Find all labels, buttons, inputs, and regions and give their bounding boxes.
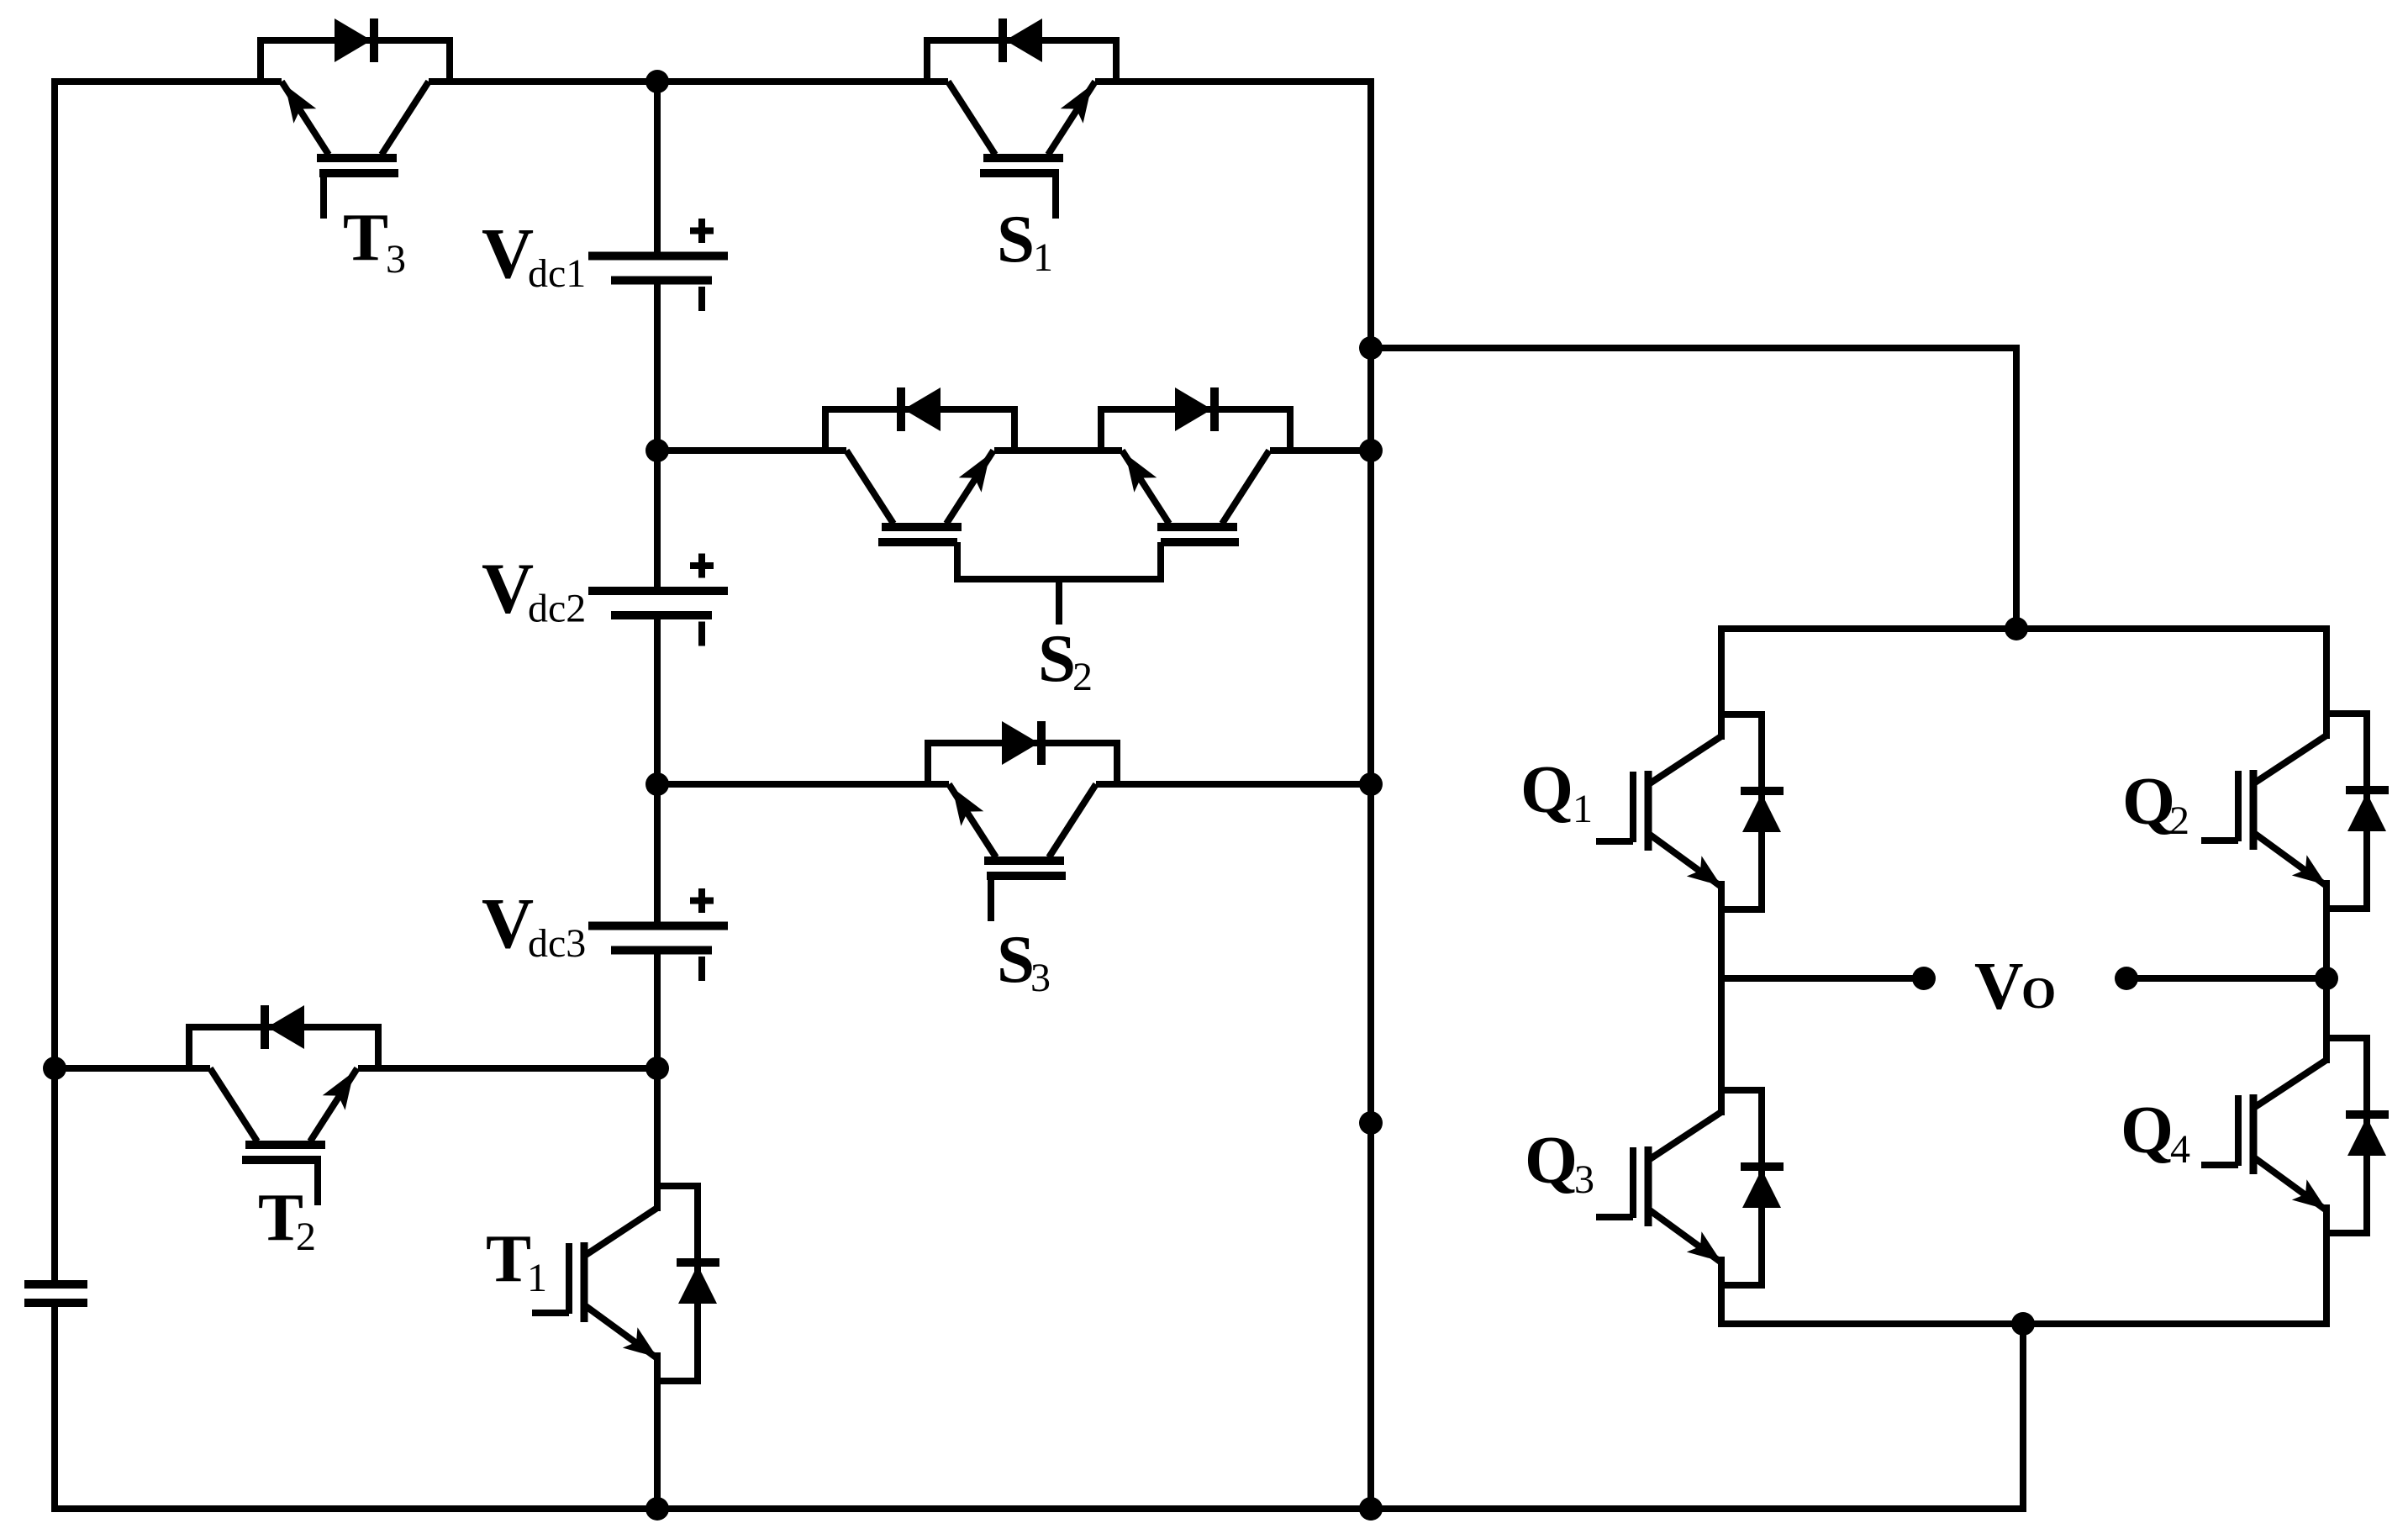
node top bus junction [645,70,669,93]
battery Vdc3 short plate [611,946,712,955]
svg-text:3: 3 [1574,1157,1594,1202]
wire diode-loop of transistor S2a [825,409,1014,451]
igbt gate bar of transistor Q4 [2235,1095,2242,1166]
node Vo right terminal [2115,967,2138,990]
label Q2 [2122,763,2189,843]
igbt inner bar of transistor Q4 [2250,1094,2258,1174]
svg-text:Q: Q [1525,1122,1578,1198]
wire S3 row left [657,781,949,788]
wire S2 row left [657,447,846,454]
collector wire of transistor Q2 [2323,629,2330,739]
wire bottom [51,1505,2023,1512]
diode of transistor T2 [265,1005,304,1049]
collector slant of transistor S2a [846,451,893,524]
collector slant of transistor Q4 [2255,1060,2326,1107]
svg-text:2: 2 [296,1215,316,1259]
gate lower bar of S2b [1161,538,1239,546]
svg-text:3: 3 [1030,956,1051,1000]
wire dc bus segment 3 [654,451,661,591]
svg-text:S: S [997,201,1035,277]
wire dc bus segment 4 [654,615,661,784]
gate lower bar of transistor T2 [242,1156,321,1164]
collector wire of transistor Q3 [1718,978,1725,1115]
diode of transistor T3 [335,18,374,62]
wire diode-loop of transistor S1 [927,40,1116,82]
svg-text:S: S [997,921,1035,997]
node bottom wire at right rail [1359,1497,1383,1521]
igbt inner bar of transistor T1 [581,1242,588,1322]
igbt gate bar of transistor Q1 [1630,772,1636,842]
capacitor C1 [24,1284,87,1303]
node Vo left terminal [1912,967,1936,990]
node right rail mid joint [1359,1111,1383,1135]
battery Vdc3 minus sign [698,957,705,981]
wire dc bus segment 2 [654,281,661,451]
diode of transistor S3 [1002,721,1041,765]
svg-text:4: 4 [2170,1127,2190,1172]
label T1 [486,1220,547,1300]
svg-text:1: 1 [1033,235,1053,280]
gate lead of transistor Q1 [1596,838,1633,845]
wire H-bridge top rail [1718,625,2330,632]
label Vo [1974,948,2056,1024]
igbt inner bar of transistor Q1 [1645,771,1652,851]
wire T2 row right [358,1065,657,1072]
freewheel diode of transistor Q2 [2346,790,2389,831]
wire Vo left [1721,975,1924,982]
wire H-bridge feed [1371,348,2016,629]
node dc bus at bottom [645,1497,669,1521]
freewheel diode of transistor Q1 [1741,791,1784,832]
gate upper bar of transistor S3 [984,856,1064,865]
collector slant of transistor T2 [210,1068,257,1141]
svg-text:1: 1 [527,1256,547,1300]
svg-text:Q: Q [2122,763,2175,839]
node dc bus at S3 row [645,772,669,796]
emitter slant with arrow of transistor S3 [949,784,996,857]
label Vdc1 [482,213,586,296]
gate lower bar of transistor T3 [319,169,398,177]
wire S2 gate link [957,542,1161,579]
battery Vdc3 long plate [588,922,728,930]
battery Vdc2 minus sign [698,622,705,646]
node right rail at S2 row [1359,439,1383,462]
freewheel diode of transistor Q4 [2346,1115,2389,1156]
freewheel diode loop of transistor Q1 [1721,714,1762,909]
igbt inner bar of transistor Q3 [1645,1146,1652,1226]
svg-text:3: 3 [386,237,406,282]
battery Vdc1 plus sign [690,219,714,243]
svg-text:V: V [482,883,534,963]
wire right rail [1367,78,1374,1509]
diode of transistor S2a [901,387,941,431]
collector slant of transistor S1 [948,82,995,155]
label Q4 [2121,1092,2190,1172]
emitter slant with arrow of transistor T2 [310,1068,357,1141]
gate lower bar of transistor S1 [980,169,1059,177]
wire diode-loop of transistor T2 [189,1027,378,1068]
gate lead of transistor T1 [532,1310,569,1316]
node H-bridge bottom joint [2011,1312,2035,1336]
gate upper bar of transistor S2a [882,523,962,531]
gate lead of transistor Q2 [2201,837,2238,844]
label T2 [258,1179,316,1259]
svg-text:dc2: dc2 [528,587,586,631]
collector wire of transistor T1 [654,1068,661,1211]
label S3 [997,921,1051,1000]
gate lead of transistor Q4 [2201,1162,2238,1168]
battery Vdc1 short plate [611,277,712,285]
gate lead of transistor Q3 [1596,1214,1633,1220]
igbt gate bar of transistor Q2 [2235,771,2242,841]
collector slant of transistor Q3 [1650,1112,1721,1159]
wire top middle [429,78,948,85]
label Vdc2 [482,548,586,631]
svg-text:V: V [1974,948,2024,1024]
wire bottom riser [2020,1324,2026,1512]
collector slant of transistor Q2 [2255,735,2326,783]
collector slant of transistor S3 [1049,784,1096,857]
gate lead of transistor S3 [988,876,994,921]
freewheel diode loop of transistor Q2 [2326,714,2367,909]
svg-text:O: O [2021,969,2056,1018]
emitter wire of transistor Q3 [1718,1257,1725,1324]
freewheel diode of transistor Q3 [1741,1167,1784,1208]
collector slant of transistor Q1 [1650,736,1721,783]
emitter slant with arrow of transistor T3 [282,82,329,155]
gate upper bar of transistor T2 [245,1141,325,1149]
gate lower bar of S2a [878,538,957,546]
svg-text:Q: Q [1520,751,1573,827]
label Vdc3 [482,883,586,966]
emitter slant with arrow of transistor T1 [586,1306,657,1358]
battery Vdc2 plus sign [690,554,714,578]
svg-text:dc3: dc3 [528,921,586,966]
emitter slant with arrow of transistor Q3 [1650,1210,1721,1262]
node dc bus at T2 row [645,1057,669,1080]
wire dc bus segment 1 [654,82,661,256]
battery Vdc1 minus sign [698,287,705,311]
node right rail at S3 row [1359,772,1383,796]
node right rail at H-bridge feed [1359,336,1383,360]
gate lead of transistor S1 [1052,173,1059,219]
wire left rail lower [51,1307,58,1512]
wire left rail upper [55,82,282,1280]
node left-T2 junction [43,1057,66,1080]
wire diode-loop of transistor S2b [1101,409,1290,451]
collector slant of transistor T1 [586,1208,657,1255]
collector slant of transistor S2b [1222,451,1269,524]
wire S2 middle link [994,447,1122,454]
emitter wire of transistor Q4 [2323,1204,2330,1324]
battery Vdc2 long plate [588,587,728,595]
collector wire of transistor Q4 [2323,978,2330,1063]
collector wire of transistor Q1 [1718,629,1725,740]
wire diode-loop of transistor T3 [261,40,450,82]
svg-text:2: 2 [1072,655,1093,699]
label S2 [1038,620,1093,699]
battery Vdc2 short plate [611,611,712,619]
gate lead of transistor T2 [314,1160,321,1205]
emitter slant with arrow of transistor Q4 [2255,1158,2326,1210]
svg-text:V: V [482,213,534,293]
diode of transistor S1 [1003,18,1042,62]
diode of transistor S2b [1175,387,1215,431]
emitter wire of transistor Q1 [1718,881,1725,978]
battery Vdc3 plus sign [690,888,714,913]
svg-text:T: T [343,199,388,275]
wire diode-loop of transistor S3 [928,743,1117,784]
svg-text:V: V [482,548,534,629]
battery Vdc1 long plate [588,252,728,261]
node right rail at bottom [1359,1497,1383,1521]
freewheel diode of transistor T1 [677,1262,719,1304]
emitter slant with arrow of transistor Q2 [2255,834,2326,886]
freewheel diode loop of transistor Q4 [2326,1038,2367,1233]
freewheel diode loop of transistor Q3 [1721,1090,1762,1285]
label S1 [997,201,1053,280]
wire S3 row right [1096,781,1371,788]
label Q3 [1525,1122,1594,1202]
node H-bridge top rail joint [2005,617,2028,640]
gate lower bar of transistor S3 [987,872,1066,880]
gate upper bar of transistor S2b [1157,523,1237,531]
wire S2 row right [1270,447,1371,454]
emitter slant with arrow of transistor S2b [1122,451,1169,524]
igbt gate bar of transistor T1 [566,1243,572,1314]
wire dc bus segment 6 [654,951,661,1069]
emitter slant with arrow of transistor S2a [946,451,993,524]
gate lead of transistor T3 [320,173,327,219]
label Q1 [1520,751,1593,831]
wire Vo right [2126,975,2326,982]
svg-text:1: 1 [1573,787,1593,831]
svg-text:2: 2 [2169,798,2189,843]
svg-text:S: S [1038,620,1076,696]
gate upper bar of transistor T3 [317,154,397,162]
wire top right [1095,78,1374,85]
svg-text:Q: Q [2121,1092,2174,1167]
wire H-bridge bottom rail [1718,1320,2330,1327]
igbt gate bar of transistor Q3 [1630,1147,1636,1218]
wire dc bus segment 5 [654,784,661,926]
svg-text:T: T [486,1220,531,1296]
emitter slant with arrow of transistor S1 [1048,82,1095,155]
emitter wire of transistor Q2 [2323,880,2330,978]
emitter slant with arrow of transistor Q1 [1650,835,1721,887]
node Q2-Q4 midpoint [2315,967,2338,990]
gate upper bar of transistor S1 [983,154,1063,162]
gate lead of S2 [1056,579,1062,625]
emitter wire of transistor T1 [654,1352,661,1509]
svg-text:dc1: dc1 [528,251,586,296]
label T3 [343,199,406,282]
igbt inner bar of transistor Q2 [2250,770,2258,850]
freewheel diode loop of transistor T1 [657,1186,698,1381]
node dc bus at S2 row [645,439,669,462]
wire T2 row left [55,1065,210,1072]
collector slant of transistor T3 [382,82,429,155]
